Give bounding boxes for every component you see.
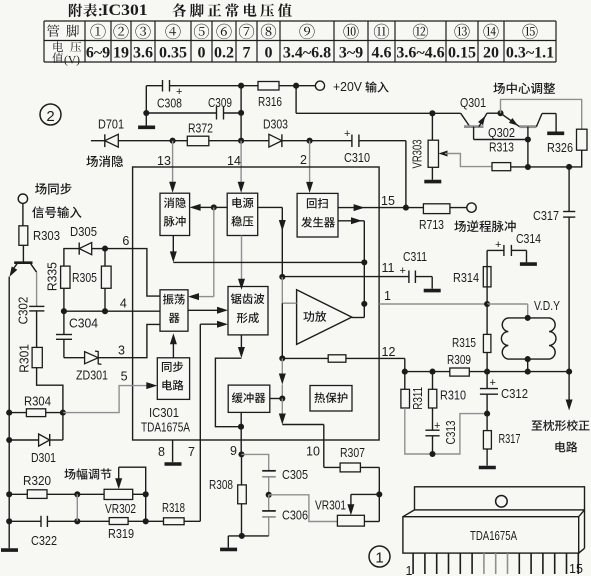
svg-text:C322: C322 xyxy=(31,534,57,548)
pin3 internal path xyxy=(133,324,160,357)
wire +20V node down and right to Q301 xyxy=(295,86,297,114)
svg-text:D303: D303 xyxy=(263,118,288,132)
capacitor C310 xyxy=(351,135,353,148)
svg-text:4: 4 xyxy=(120,297,127,311)
wire Q301 base to Q302 base node xyxy=(474,139,528,141)
VR303 wiper arrow xyxy=(439,151,448,157)
svg-text:R308: R308 xyxy=(209,478,233,492)
resistor R309 xyxy=(450,368,470,376)
label 场中心调整 xyxy=(493,83,555,95)
VR303 ground xyxy=(431,167,433,180)
svg-text:3~9: 3~9 xyxy=(339,45,363,62)
capacitor C306 xyxy=(268,495,270,511)
svg-text:C308: C308 xyxy=(157,97,182,111)
svg-text:D701: D701 xyxy=(98,118,124,132)
block 消隐脉冲 xyxy=(160,193,190,235)
wire R318 to pin7 xyxy=(184,520,200,522)
wire line A to node xyxy=(173,261,364,263)
svg-text:R319: R319 xyxy=(108,527,134,541)
svg-text:R303: R303 xyxy=(33,229,60,243)
svg-text:3.6: 3.6 xyxy=(133,45,153,62)
node R314 bottom xyxy=(484,301,490,307)
circled number 1 xyxy=(369,546,390,567)
wire C308 to R316 xyxy=(170,85,259,87)
场同步信号输入 terminal xyxy=(18,194,27,203)
wire VR302 node down xyxy=(145,494,147,521)
+20V input terminal xyxy=(315,81,324,90)
同步电路 up arrow to 振荡器 xyxy=(172,341,174,358)
wire 电源稳压 right to amp input node xyxy=(258,206,283,208)
resistor R308 xyxy=(241,454,243,485)
svg-text:R311: R311 xyxy=(411,387,425,410)
block 振荡器 xyxy=(160,290,188,331)
wire base node down xyxy=(527,140,529,168)
wire VDY bottom to rail xyxy=(527,359,529,372)
resistor R318 xyxy=(146,520,164,522)
node pin12 xyxy=(279,355,285,361)
svg-text:3: 3 xyxy=(118,344,125,358)
capacitor C309 xyxy=(216,107,218,120)
capacitor C322 row xyxy=(6,518,12,524)
svg-text:3.6~4.6: 3.6~4.6 xyxy=(396,45,444,62)
resistor R335 xyxy=(61,266,70,288)
wire amp-input node down to pin12 node xyxy=(281,303,283,358)
capacitor C311 xyxy=(408,271,410,284)
wire pin15 out xyxy=(379,207,406,209)
wire 消隐脉冲 bottom arrow to line A xyxy=(172,236,174,255)
node C317 top xyxy=(566,164,572,170)
wire R304 node to pin5 xyxy=(63,386,133,413)
table header cell 电压值(V) xyxy=(54,41,82,52)
pin6 internal path xyxy=(133,249,160,297)
svg-text:R301: R301 xyxy=(18,344,32,373)
op-amp 功放 triangle xyxy=(297,290,352,345)
svg-text:7: 7 xyxy=(243,45,251,62)
svg-text:R313: R313 xyxy=(489,141,514,155)
svg-text:1: 1 xyxy=(406,564,413,576)
resistor R315 xyxy=(486,304,488,334)
svg-text:0.2: 0.2 xyxy=(214,45,234,62)
pin 2 wire with arrow xyxy=(309,141,311,184)
wire R372 to node14 xyxy=(209,140,241,142)
wire 回扫发生器 second output xyxy=(338,220,364,222)
capacitor C313 electrolytic xyxy=(432,408,434,430)
svg-text:C310: C310 xyxy=(344,151,370,165)
svg-text:TDA1675A: TDA1675A xyxy=(470,528,517,543)
wire pin1 to R314 node xyxy=(379,303,487,305)
svg-text:R372: R372 xyxy=(188,122,213,136)
resistor R319 xyxy=(77,520,109,522)
zener diode ZD301 pin3 row xyxy=(64,357,85,359)
svg-text:0: 0 xyxy=(265,45,273,62)
wire pin11 to C311 xyxy=(379,276,409,278)
transistor Q301 xyxy=(461,113,470,126)
svg-text:VR301: VR301 xyxy=(315,499,346,513)
svg-text:R326: R326 xyxy=(547,141,573,155)
node at pin14 top xyxy=(238,83,244,89)
svg-text:R317: R317 xyxy=(499,432,521,446)
block 电源稳压 xyxy=(227,193,258,235)
svg-text:+: + xyxy=(434,420,440,432)
wire ground node to C309 xyxy=(146,112,216,114)
IC301 boundary box xyxy=(133,167,380,440)
wire pin12 with internal resistor xyxy=(282,357,328,359)
svg-text:C306: C306 xyxy=(282,509,308,523)
wire top rail to C308 xyxy=(146,85,162,87)
wire pin11 from node xyxy=(282,276,379,278)
wire down to 缓冲器 output node xyxy=(281,358,283,376)
table pin number row xyxy=(90,24,105,39)
node amp input xyxy=(279,274,285,280)
svg-text:TDA1675A: TDA1675A xyxy=(141,421,191,435)
package body xyxy=(403,517,579,553)
wire pin1 node to VDY top xyxy=(487,303,528,305)
svg-text:C313: C313 xyxy=(444,420,458,444)
svg-text:8: 8 xyxy=(158,445,165,459)
resistor R317 xyxy=(486,414,488,431)
wire R316 to +20V terminal xyxy=(279,85,296,87)
pin5 wire with arrow xyxy=(133,385,149,387)
wire to pincushion arrow xyxy=(568,372,570,401)
svg-text:20: 20 xyxy=(483,45,499,62)
svg-text:(V): (V) xyxy=(64,55,80,67)
svg-text:R315: R315 xyxy=(452,336,476,350)
block 同步电路 xyxy=(157,358,189,400)
wire 回扫发生器 output pin15 xyxy=(338,207,379,209)
potentiometer VR303 xyxy=(431,113,433,140)
pin7 wire from 锯齿波 left arrow xyxy=(200,323,219,325)
svg-text:6: 6 xyxy=(122,234,129,248)
resistor R310 xyxy=(432,372,434,390)
node pin15/C310 xyxy=(403,205,409,211)
rail bottom ground xyxy=(1,548,18,552)
capacitor C317 xyxy=(568,167,570,212)
wire 场中心调整 rail to R326 xyxy=(501,99,582,129)
label 场逆程脉冲 xyxy=(454,220,515,232)
wire R326 bottom to base node xyxy=(528,150,582,167)
svg-text:R713: R713 xyxy=(419,218,444,232)
label 场幅调节 xyxy=(64,468,111,479)
wire Q302 collector to ground xyxy=(542,113,556,115)
wire node13 to R372 xyxy=(173,140,188,142)
svg-text:R335: R335 xyxy=(46,262,60,291)
svg-text:+20V: +20V xyxy=(333,80,363,94)
block 锯齿波形成 xyxy=(228,287,268,335)
svg-text:C305: C305 xyxy=(282,468,308,482)
svg-text:R318: R318 xyxy=(162,501,185,515)
wire D303 to node pin2 xyxy=(282,140,310,142)
node pin13 xyxy=(170,138,176,144)
node pin2 xyxy=(307,138,313,144)
resistor R320 row xyxy=(6,491,12,497)
deflection yoke V.D.Y xyxy=(525,315,531,321)
svg-text:2: 2 xyxy=(300,153,307,167)
svg-text:2: 2 xyxy=(46,108,54,125)
svg-text:1: 1 xyxy=(384,289,391,303)
svg-text:+: + xyxy=(495,239,501,251)
svg-text:0.3~1.1: 0.3~1.1 xyxy=(506,45,554,62)
capacitor C312 electrolytic xyxy=(486,372,488,389)
package pins xyxy=(412,553,414,574)
rail y=371.6 with nodes xyxy=(405,371,450,373)
node pin14 xyxy=(238,138,244,144)
svg-text:R307: R307 xyxy=(340,446,365,460)
wire junction down to 振荡器 right arrow xyxy=(213,207,215,296)
resistor R304 row xyxy=(6,410,12,416)
capacitor C305 xyxy=(242,454,269,470)
svg-text:Q302: Q302 xyxy=(488,126,515,140)
resistor R316 xyxy=(258,82,279,91)
resistor R713 xyxy=(423,204,450,214)
left ground rail xyxy=(8,277,10,549)
label 至枕形校正电路 xyxy=(532,420,590,431)
diode D701 xyxy=(91,140,105,142)
resistor R303 xyxy=(19,226,28,246)
pin 13 wire with arrow xyxy=(172,141,174,184)
svg-text:R314: R314 xyxy=(453,271,479,285)
svg-text:R305: R305 xyxy=(72,271,97,285)
svg-text:7: 7 xyxy=(188,445,195,459)
wire node14 to D303 xyxy=(241,140,269,142)
svg-text:C309: C309 xyxy=(208,96,232,110)
svg-text:9: 9 xyxy=(230,444,237,458)
capacitor C304 xyxy=(63,311,65,334)
C311 ground xyxy=(424,289,441,293)
resistor R305 xyxy=(104,249,106,267)
input transistor xyxy=(22,245,24,262)
svg-text:VR303: VR303 xyxy=(411,139,425,168)
resistor R372 xyxy=(187,136,209,146)
resistor R326 xyxy=(577,129,588,150)
svg-text:13: 13 xyxy=(157,154,171,168)
wire C317 down to R309 rail xyxy=(568,217,570,371)
svg-text:C311: C311 xyxy=(403,250,427,264)
svg-text:R310: R310 xyxy=(440,389,466,403)
svg-text:R309: R309 xyxy=(447,353,471,367)
wire 锯齿波 bottom loop xyxy=(240,335,242,350)
C314 ground xyxy=(520,262,537,266)
svg-text:10: 10 xyxy=(306,445,320,459)
svg-text:Q301: Q301 xyxy=(460,96,486,110)
svg-text:15: 15 xyxy=(569,562,583,576)
svg-text:+: + xyxy=(490,377,496,389)
svg-text:D305: D305 xyxy=(70,225,97,239)
svg-text:+: + xyxy=(344,128,350,140)
voltage table frame xyxy=(43,21,45,62)
node +20V branch xyxy=(293,83,299,89)
svg-text:C317: C317 xyxy=(533,209,559,223)
VR301 wiper xyxy=(351,493,379,495)
circled number 2 xyxy=(40,104,61,125)
wire 电源稳压 bottom to 锯齿波形成 xyxy=(241,236,243,282)
svg-text:14: 14 xyxy=(227,154,241,168)
pin9 node xyxy=(238,451,244,457)
svg-text:6~9: 6~9 xyxy=(86,45,110,62)
capacitor C302 xyxy=(36,277,38,307)
node C305/C306 xyxy=(266,492,272,498)
振荡器 to 锯齿波 arrow xyxy=(188,309,219,311)
svg-text:ZD301: ZD301 xyxy=(76,369,108,383)
node pin1 junction xyxy=(361,301,367,307)
缓冲器 bottom lead to pin9 xyxy=(240,412,242,454)
resistor R307 pin10 xyxy=(324,466,340,468)
wire C305 node to VR301 xyxy=(269,495,338,522)
wire R713 to terminal xyxy=(450,207,467,209)
wire amp input path xyxy=(281,277,283,303)
svg-text:12: 12 xyxy=(382,345,396,359)
svg-text:0.35: 0.35 xyxy=(159,45,187,62)
wire R313 to base node xyxy=(511,166,528,168)
svg-text:0.15: 0.15 xyxy=(448,45,476,62)
node below C312 xyxy=(484,411,490,417)
package tab hole xyxy=(496,496,508,508)
wire terminal to R303 xyxy=(22,203,24,225)
R317 ground xyxy=(486,449,488,466)
场逆程脉冲 terminal xyxy=(467,203,476,212)
pin4 wire xyxy=(61,308,67,314)
resistor R313 xyxy=(492,163,511,171)
label 场消隐 xyxy=(86,155,123,167)
svg-text:IC301: IC301 xyxy=(102,2,148,19)
resistor R314 xyxy=(486,267,488,304)
resistor R301 xyxy=(36,311,38,348)
svg-text:5: 5 xyxy=(121,370,128,384)
label 场同步信号输入 xyxy=(35,183,71,195)
wire pin12 corner down xyxy=(404,358,406,371)
wire C310 to pin15 node xyxy=(359,140,406,142)
wire amp output xyxy=(352,317,365,319)
pin14 vertical wire xyxy=(240,86,242,141)
svg-text:VR302: VR302 xyxy=(105,502,136,516)
svg-text:R316: R316 xyxy=(258,95,282,109)
pin8 ground xyxy=(172,440,174,462)
svg-text:15: 15 xyxy=(381,194,395,208)
node R305 top xyxy=(102,246,108,252)
capacitor C314 xyxy=(486,250,488,266)
pin 14 wire with arrow xyxy=(240,141,242,184)
pin4 internal wire xyxy=(133,310,160,312)
potentiometer VR302 xyxy=(104,489,133,499)
wire C308 left leg down to ground node xyxy=(145,86,147,113)
svg-text:IC301: IC301 xyxy=(149,406,179,420)
wire 电源稳压 to 消隐脉冲 with left arrow xyxy=(214,206,227,208)
svg-text:4.6: 4.6 xyxy=(372,45,392,62)
potentiometer VR301 xyxy=(337,515,364,526)
block 回扫发生器 xyxy=(297,193,338,237)
capacitor C308 xyxy=(162,80,164,92)
svg-text:11: 11 xyxy=(382,261,395,275)
wire node2 to C310 xyxy=(310,140,352,142)
bottom node and ground xyxy=(228,535,268,537)
svg-text:0: 0 xyxy=(198,45,206,62)
wire R301 to R304 node xyxy=(37,368,63,413)
wire R311 bottom chain xyxy=(405,408,487,454)
transistor Q302 xyxy=(501,113,520,127)
ground under C308 xyxy=(145,113,147,126)
wire R320 node to C322 node xyxy=(76,494,78,521)
svg-text:R320: R320 xyxy=(23,474,51,488)
table header cell 管脚 xyxy=(47,25,79,38)
svg-text:C304: C304 xyxy=(69,317,98,331)
diode D301 row xyxy=(6,437,12,443)
node VR303 top xyxy=(429,110,435,116)
block 热保护 xyxy=(310,386,352,412)
table title 附表:IC301 各脚正常电压值 xyxy=(69,3,102,17)
svg-text:C314: C314 xyxy=(516,232,541,246)
svg-text:19: 19 xyxy=(113,45,129,62)
wire Q301 emitter to node xyxy=(487,112,500,114)
svg-text:C312: C312 xyxy=(501,387,528,401)
svg-text:D301: D301 xyxy=(31,451,56,465)
diode D305 row pin6 xyxy=(64,249,79,267)
diode D303 xyxy=(269,134,282,147)
svg-text:3.4~6.8: 3.4~6.8 xyxy=(283,45,331,62)
wire C309 to pin14 vertical xyxy=(224,112,242,114)
svg-text:C302: C302 xyxy=(17,297,31,325)
svg-text:R304: R304 xyxy=(24,395,51,409)
wire D701 to node 13 xyxy=(118,140,172,142)
IC package tab xyxy=(415,487,585,510)
wire down to pin10 corner xyxy=(281,399,283,417)
pin10 wire down xyxy=(323,425,325,468)
svg-text:1: 1 xyxy=(375,550,383,567)
svg-text:+: + xyxy=(400,265,406,277)
resistor R311 xyxy=(404,372,406,390)
node 缓冲器 right xyxy=(279,395,285,401)
block 缓冲器 xyxy=(228,385,270,412)
svg-text:V.D.Y: V.D.Y xyxy=(534,299,561,313)
